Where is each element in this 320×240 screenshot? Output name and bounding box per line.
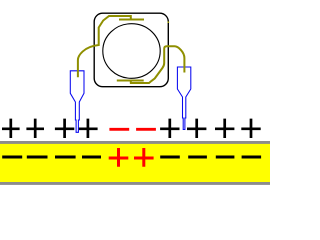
electrometer case (rounded square) xyxy=(94,13,168,87)
negative charges in slab (right group) xyxy=(160,156,261,159)
charged slab (yellow plate) xyxy=(0,144,270,183)
wire: left probe to top plate of electrometer xyxy=(78,16,144,77)
slab bottom gray edge xyxy=(0,182,270,185)
electrometer dial (circle) xyxy=(103,24,160,79)
surface positive charges (right group of plus signs) xyxy=(160,119,261,138)
wire: bottom plate of electrometer to right probe xyxy=(117,46,185,83)
negative charges in slab (left group) xyxy=(2,156,101,159)
surface negative charges (red dashes) xyxy=(109,128,155,131)
left probe (blue funnel) xyxy=(70,71,84,133)
wire blip at top-right edge of case xyxy=(167,21,169,23)
right probe (blue funnel) xyxy=(177,67,190,130)
slab top gray edge xyxy=(0,141,270,144)
surface positive charges (left group of plus signs) xyxy=(2,119,98,138)
positive charges in slab (red) xyxy=(109,148,154,167)
